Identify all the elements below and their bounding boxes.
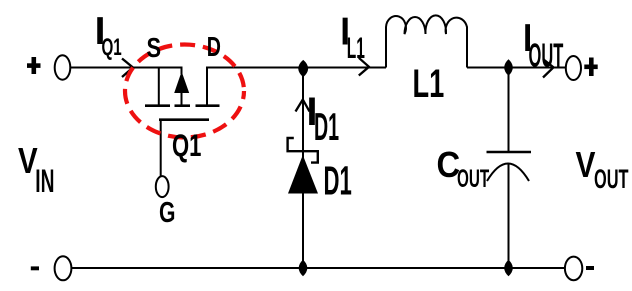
svg-text:S: S <box>147 32 162 63</box>
svg-text:IN: IN <box>35 163 54 199</box>
svg-text:Q1: Q1 <box>102 35 122 61</box>
svg-text:OUT: OUT <box>457 165 489 193</box>
svg-text:Q1: Q1 <box>172 127 201 163</box>
svg-text:L1: L1 <box>413 62 445 106</box>
svg-text:L1: L1 <box>347 32 365 65</box>
svg-text:D1: D1 <box>314 106 339 149</box>
svg-text:OUT: OUT <box>529 36 564 74</box>
svg-text:D1: D1 <box>324 157 352 203</box>
svg-text:G: G <box>159 197 175 229</box>
svg-text:V: V <box>576 145 596 185</box>
svg-text:OUT: OUT <box>594 164 629 194</box>
svg-text:D: D <box>207 32 221 63</box>
